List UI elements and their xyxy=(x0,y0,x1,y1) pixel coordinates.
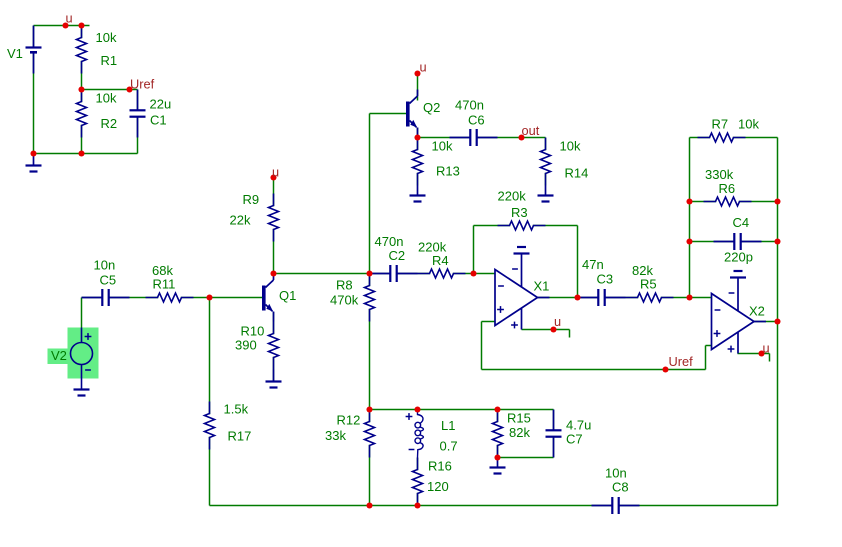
svg-text:out: out xyxy=(522,123,540,138)
svg-text:0.7: 0.7 xyxy=(440,439,458,454)
svg-text:10n: 10n xyxy=(94,258,116,273)
svg-text:R10: R10 xyxy=(241,324,265,339)
svg-text:470n: 470n xyxy=(375,234,404,249)
svg-text:R12: R12 xyxy=(337,413,361,428)
svg-text:390: 390 xyxy=(235,338,257,353)
svg-text:R1: R1 xyxy=(101,53,118,68)
svg-text:220p: 220p xyxy=(724,250,753,265)
svg-text:220k: 220k xyxy=(498,189,527,204)
svg-text:u: u xyxy=(554,314,561,329)
svg-text:C4: C4 xyxy=(733,215,750,230)
svg-text:R9: R9 xyxy=(243,192,260,207)
svg-text:R4: R4 xyxy=(432,253,449,268)
svg-text:V2: V2 xyxy=(51,348,67,363)
svg-text:R16: R16 xyxy=(428,459,452,474)
svg-text:10k: 10k xyxy=(96,91,117,106)
svg-text:10k: 10k xyxy=(432,139,453,154)
svg-text:u: u xyxy=(66,11,73,26)
svg-text:33k: 33k xyxy=(325,428,346,443)
svg-text:R3: R3 xyxy=(511,205,528,220)
svg-text:47n: 47n xyxy=(582,257,604,272)
svg-text:C8: C8 xyxy=(612,480,629,495)
svg-text:120: 120 xyxy=(427,479,449,494)
svg-text:Uref: Uref xyxy=(669,354,694,369)
svg-text:R13: R13 xyxy=(436,164,460,179)
svg-text:C7: C7 xyxy=(566,432,583,447)
svg-text:R11: R11 xyxy=(153,277,176,292)
svg-text:R2: R2 xyxy=(101,116,118,131)
svg-text:C1: C1 xyxy=(150,113,167,128)
svg-text:X2: X2 xyxy=(749,304,765,319)
svg-text:Q2: Q2 xyxy=(423,100,440,115)
svg-text:V1: V1 xyxy=(7,46,23,61)
svg-text:470k: 470k xyxy=(330,293,359,308)
svg-text:R17: R17 xyxy=(228,429,252,444)
svg-text:u: u xyxy=(272,165,279,180)
svg-text:10n: 10n xyxy=(605,466,627,481)
svg-text:C6: C6 xyxy=(468,113,485,128)
svg-text:470n: 470n xyxy=(455,98,484,113)
svg-text:R8: R8 xyxy=(336,278,353,293)
svg-text:u: u xyxy=(763,341,770,356)
svg-text:1.5k: 1.5k xyxy=(224,402,249,417)
svg-text:82k: 82k xyxy=(509,425,530,440)
svg-text:X1: X1 xyxy=(534,279,550,294)
svg-text:22k: 22k xyxy=(230,213,251,228)
svg-text:10k: 10k xyxy=(96,30,117,45)
svg-text:R7: R7 xyxy=(712,117,729,132)
svg-text:L1: L1 xyxy=(441,418,455,433)
svg-text:10k: 10k xyxy=(738,117,759,132)
svg-text:R15: R15 xyxy=(507,411,531,426)
svg-text:Q1: Q1 xyxy=(279,288,296,303)
svg-text:R5: R5 xyxy=(640,277,657,292)
svg-text:10k: 10k xyxy=(560,139,581,154)
svg-text:C5: C5 xyxy=(100,273,117,288)
svg-text:4.7u: 4.7u xyxy=(566,418,591,433)
svg-text:22u: 22u xyxy=(150,97,172,112)
svg-text:Uref: Uref xyxy=(130,77,155,92)
svg-text:330k: 330k xyxy=(705,167,734,182)
svg-text:C2: C2 xyxy=(389,248,406,263)
svg-text:u: u xyxy=(420,60,427,75)
svg-text:R6: R6 xyxy=(719,181,736,196)
svg-text:C3: C3 xyxy=(597,272,614,287)
svg-text:R14: R14 xyxy=(565,166,589,181)
